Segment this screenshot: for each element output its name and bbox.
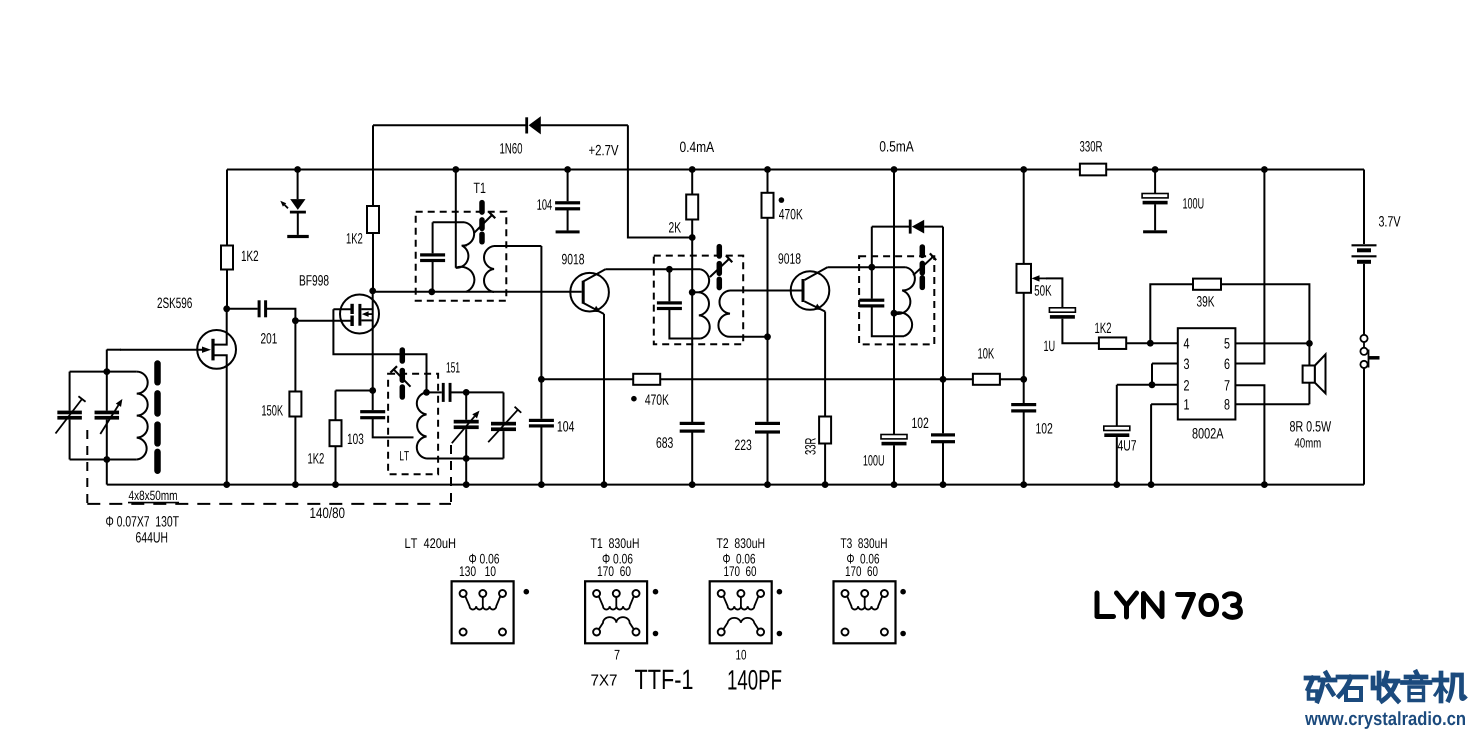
label 4U7 xyxy=(1118,440,1136,450)
node BF998 source xyxy=(369,387,376,394)
wire +2.7V branch xyxy=(628,125,692,237)
wire detector diode output xyxy=(924,226,943,228)
capacitor T1 internal xyxy=(420,253,445,262)
node 683 ground xyxy=(689,481,696,488)
wire battery to switch xyxy=(1363,264,1365,335)
pin 6 label xyxy=(1225,359,1230,370)
pin 2 label xyxy=(1184,380,1189,391)
label 644UH xyxy=(136,532,167,543)
node 33R ground xyxy=(822,481,829,488)
node pin5/39K/speaker xyxy=(1306,340,1313,347)
wire Q1 collector diagonal xyxy=(583,269,605,281)
wire to 1N60 cathode xyxy=(373,124,526,126)
node Q1 emitter ground xyxy=(601,481,608,488)
T1 primary cusp tick xyxy=(462,245,467,247)
label T3 830uH xyxy=(841,538,887,548)
capacitor 683 xyxy=(680,422,705,433)
BF998 substrate arrow xyxy=(362,311,373,317)
logo text LYN703 xyxy=(1097,593,1240,617)
label T1 xyxy=(474,183,486,193)
node 223 ground xyxy=(764,481,771,488)
capacitor 104 (tank area) xyxy=(529,419,554,428)
node T1 cap/primary bottom xyxy=(428,288,435,295)
label +2.7V xyxy=(589,145,618,156)
label 7 xyxy=(615,650,620,660)
inductor T3 coil xyxy=(894,267,915,336)
label 2SK596 xyxy=(158,298,192,309)
wire T2 cap top lead xyxy=(668,269,670,301)
label 1K2 amp xyxy=(1095,323,1111,334)
wire gate2 to LT oscillator coil xyxy=(333,309,426,392)
wire speaker bottom lead xyxy=(1308,383,1310,405)
footprint T1 xyxy=(585,581,647,643)
battery 3.7V xyxy=(1352,245,1377,261)
node T2 primary tap xyxy=(689,289,696,296)
label 4x8x50mm xyxy=(129,491,177,501)
BF998 drain stub xyxy=(361,308,373,310)
wire bus to cap 104 xyxy=(540,379,542,419)
node pin2/pin3 junction xyxy=(1149,381,1156,388)
wire BF998 drain-source vertical xyxy=(372,291,374,391)
label 10 xyxy=(736,650,746,660)
label 102 volume xyxy=(1036,423,1052,434)
dashed box LT oscillator coil xyxy=(388,374,438,475)
resistor 150K xyxy=(289,392,301,417)
label 683 xyxy=(657,437,673,448)
footprint T3 xyxy=(834,581,896,643)
resistor 330R xyxy=(1080,164,1106,176)
adjustable core T3 xyxy=(913,247,936,287)
node rail/104 xyxy=(564,166,571,173)
adjustable core T2 xyxy=(710,247,732,288)
dot T2 footprint a xyxy=(777,589,783,595)
label 100U top xyxy=(1183,198,1203,209)
label LT xyxy=(400,451,409,460)
wire gate down to antenna coil top xyxy=(106,350,108,372)
resistor 470K (AGC) xyxy=(633,374,660,385)
dot T1 footprint a xyxy=(653,589,659,595)
LED D1 (tuning indicator) xyxy=(290,199,306,213)
ferrite rod (4x8x50mm) xyxy=(154,364,161,471)
node T3 cap/collector xyxy=(868,264,875,271)
node pin1 ground xyxy=(1148,481,1155,488)
dot T1 footprint b xyxy=(653,631,659,637)
wire antenna tank bottom bar xyxy=(70,459,137,461)
label 3.7V xyxy=(1379,216,1401,227)
resistor 2K xyxy=(686,195,698,220)
node 104 ground xyxy=(538,481,545,488)
dot T2 footprint b xyxy=(777,631,783,637)
wire bias node to cap 223 xyxy=(767,337,769,422)
bullet 470K AGC xyxy=(631,396,637,402)
wire to CT2 top xyxy=(503,392,505,421)
label T2 830uH xyxy=(717,538,765,548)
inductor T1 primary xyxy=(456,222,475,291)
wire drain node to cap 201 xyxy=(227,308,258,310)
capacitor 223 xyxy=(755,422,780,434)
label 1K2 BF998 drain xyxy=(347,233,363,244)
wire to trimmer CT1 top xyxy=(69,372,71,411)
wire bus to cap 102b xyxy=(1023,379,1025,403)
label 104 top xyxy=(537,199,552,210)
node antenna tank bottom xyxy=(103,456,110,463)
label phi 0.06 T3 xyxy=(847,554,879,564)
wire speaker top lead xyxy=(1308,343,1310,365)
wire AGC bus middle segment xyxy=(660,378,973,380)
node LT coil top xyxy=(423,389,430,396)
wire 50K to bus xyxy=(1023,293,1025,380)
wire 100U to ground xyxy=(893,446,895,485)
node 50K/bus junction xyxy=(1020,376,1027,383)
Q1 emitter with arrow xyxy=(583,303,604,314)
dot T3 footprint a xyxy=(900,589,906,595)
wire Q1 collector to T2 xyxy=(605,268,700,270)
ground bar under 104 xyxy=(556,230,580,233)
wire 104 to ground bar xyxy=(567,210,569,230)
resistor 10K xyxy=(973,374,1000,385)
transistor Q1 9018 xyxy=(570,273,609,312)
label 1N60 xyxy=(500,143,522,154)
wire 39K to pin5 node xyxy=(1221,284,1309,343)
potentiometer 50K xyxy=(1017,264,1032,293)
wire drain to T1 and Q1 base xyxy=(373,291,582,293)
label 50K xyxy=(1035,285,1052,296)
underline 4x8x50mm xyxy=(128,502,179,504)
label TTF-1 xyxy=(635,670,692,689)
T2 tap stub xyxy=(692,291,699,293)
node LED-rail junction xyxy=(294,166,301,173)
capacitor CV2 tuning plates xyxy=(454,420,479,429)
node rail/2K xyxy=(689,166,696,173)
wire rail to 2K xyxy=(691,170,693,195)
wire pin 5 to speaker xyxy=(1235,342,1309,344)
label 1K2 source bias xyxy=(308,453,324,464)
wire pin 1 xyxy=(1151,403,1178,405)
wire ground rail xyxy=(107,484,1364,486)
2SK596 channel bar xyxy=(211,339,214,361)
label 39K xyxy=(1197,296,1215,307)
wire LED cathode xyxy=(297,214,299,235)
label 130 10 xyxy=(460,566,496,576)
wire T2 tap to cap 683 xyxy=(691,292,693,422)
dashed gang bottom line 140/80 xyxy=(87,503,451,505)
BF998 source stub xyxy=(361,319,373,321)
wire 470K to T2 secondary xyxy=(767,218,769,337)
trimmer arrow CT1 xyxy=(56,396,86,433)
resistor 470K (Q2 bias) xyxy=(762,193,774,218)
node antenna tank top xyxy=(103,368,110,375)
capacitor 1U xyxy=(1049,308,1075,319)
wire source to 1K2 bias xyxy=(336,390,373,392)
label 170 60 T1 xyxy=(598,566,631,576)
wire rail to 470K xyxy=(767,170,769,193)
LED emission arrow xyxy=(280,201,288,209)
transistor U BF998 (dual-gate MOSFET) xyxy=(340,295,379,334)
wire rail to LED anode xyxy=(297,170,299,200)
label 140/80 xyxy=(310,507,344,518)
dashed box T3 xyxy=(859,256,934,344)
dot LT footprint xyxy=(524,589,530,595)
label 140PF xyxy=(728,670,781,690)
ground bar under LED xyxy=(287,235,309,238)
wire 1K2 to pin 4 xyxy=(1126,342,1178,344)
node T2 secondary bias xyxy=(764,333,771,340)
wire to tuning cap CV1 top xyxy=(106,372,108,411)
bullet 470K xyxy=(779,197,785,203)
label 170 60 T2 xyxy=(724,566,756,576)
node 4U7 ground xyxy=(1113,481,1120,488)
label 2K xyxy=(669,222,681,233)
wire wiper to cap 1U xyxy=(1046,278,1062,307)
wire 223 to ground xyxy=(767,433,769,484)
capacitor T2 internal xyxy=(657,301,682,310)
wire diode to collector node xyxy=(871,227,873,268)
wire cap 104 to ground xyxy=(540,427,542,485)
node pin4/39K junction xyxy=(1147,340,1154,347)
wire rail to 50K xyxy=(1023,170,1025,264)
50K wiper arrow xyxy=(1032,275,1048,281)
transistor Q2 9018 xyxy=(791,271,830,310)
label 0.4mA xyxy=(680,142,714,153)
label BF998 xyxy=(300,275,329,286)
wire T2 cap bottom / primary bottom xyxy=(669,310,700,339)
wire diode line to 1K2 (BF998 drain) xyxy=(372,125,374,206)
node T2 cap/collector xyxy=(666,266,673,273)
wire detector output to bus xyxy=(942,227,944,380)
node BF998 drain xyxy=(369,288,376,295)
wire 2K to T2 tap xyxy=(691,220,693,293)
inductor antenna coil L1 (4 turns) xyxy=(137,372,148,460)
wire pin4 up to 39K xyxy=(1150,284,1193,343)
label 7X7 xyxy=(591,675,616,686)
label 0.5mA xyxy=(880,141,914,152)
capacitor 102 (detector) xyxy=(931,433,955,443)
label 8002A xyxy=(1193,428,1224,439)
wire 1K2 bias to ground xyxy=(335,446,337,484)
wire collector to detector diode xyxy=(872,226,910,228)
resistor 1K2 (BF998 drain load) xyxy=(367,206,379,233)
switch S1 (power) xyxy=(1360,335,1379,368)
wire antenna tank to ground rail xyxy=(106,460,108,485)
node 1K2 ground xyxy=(332,481,339,488)
label 1K2 drain resistor xyxy=(242,251,258,262)
label 10K xyxy=(978,348,994,359)
wire AGC bus left segment xyxy=(541,378,633,380)
label 223 xyxy=(735,440,751,451)
node pin7 ground xyxy=(1261,481,1268,488)
wire pin 3 xyxy=(1152,363,1178,365)
wire T1 cap bottom lead xyxy=(432,262,434,292)
node tank bottom junction xyxy=(463,455,470,462)
label 1U xyxy=(1044,341,1054,351)
label 151 xyxy=(447,362,460,372)
wire rail to T1 primary tap xyxy=(455,170,457,268)
capacitor 103 xyxy=(360,410,385,419)
tuning arrow CV1 xyxy=(100,399,122,434)
wire trimmer CT1 bottom xyxy=(69,420,71,460)
label 9018 Q2 xyxy=(779,253,801,264)
wire source to cap 103 xyxy=(372,391,374,411)
wire pin 8 to speaker xyxy=(1235,403,1309,405)
adjustable core T1 xyxy=(474,203,495,242)
watermark url xyxy=(1305,711,1465,729)
wire bus to cap 102 xyxy=(942,379,944,433)
inductor LT oscillator coil xyxy=(417,392,427,458)
node rail/T1 tap xyxy=(452,166,459,173)
wire BF998 gate 2 lead xyxy=(333,308,350,310)
adjustable core LT xyxy=(390,350,410,397)
wire CT2 bottom xyxy=(503,431,505,458)
capacitor CV1 tuning plates xyxy=(95,411,120,420)
capacitor CT2 trimmer plates xyxy=(491,422,516,431)
wire T3 cap bottom / coil bottom xyxy=(872,307,904,336)
capacitor 100U (supply) xyxy=(1142,194,1168,205)
node 150K ground xyxy=(292,481,299,488)
pin 8 label xyxy=(1225,399,1230,410)
wire pin 2 xyxy=(1117,384,1178,386)
wire 4U7 to ground xyxy=(1116,437,1118,485)
IC U 8002A xyxy=(1178,328,1236,419)
dashed box T1 xyxy=(416,212,507,301)
dot T3 footprint b xyxy=(900,631,906,637)
node rail/50K xyxy=(1020,166,1027,173)
trimmer arrow CT2 xyxy=(488,407,521,443)
wire T3 tap to 100U xyxy=(893,313,895,434)
capacitor 151 xyxy=(442,383,452,402)
node +2.7V / 2K junction xyxy=(689,234,696,241)
node drain/cap201 junction xyxy=(223,305,230,312)
label 150K xyxy=(262,405,283,416)
wire 1K2 bias top xyxy=(335,391,337,421)
wire 1K2 to BF998 drain node xyxy=(372,233,374,291)
capacitor 102 (volume) xyxy=(1011,403,1036,413)
inductor T2 primary xyxy=(699,269,710,338)
label phi 0.06 T1 xyxy=(603,554,633,564)
wire cap 103 to LT coil tap xyxy=(373,419,414,438)
wire 102 to ground xyxy=(942,443,944,485)
resistor 33R xyxy=(819,417,831,444)
footprint LT coil former xyxy=(452,581,514,643)
wire rail to R 1K2 (RF drain) xyxy=(226,170,228,246)
wire T3 cap top lead xyxy=(871,267,873,298)
wire 1N60 anode to +2.7V corner xyxy=(541,124,628,126)
capacitor 4U7 xyxy=(1104,426,1130,437)
label 103 xyxy=(348,434,364,445)
label 104 tank xyxy=(558,421,574,432)
wire tuning cap CV1 bottom xyxy=(106,420,108,460)
wire pin3 to pin2 net xyxy=(1151,364,1153,385)
wire rail to 100U top xyxy=(1154,170,1156,194)
wire bus to volume pot xyxy=(1000,378,1024,380)
label LT 420uH xyxy=(405,538,455,548)
wire LT top to cap 151 xyxy=(427,391,442,393)
diode detector (1N60) xyxy=(909,220,924,234)
label 170 60 T3 xyxy=(846,566,878,576)
wire tank bottom bar xyxy=(427,458,504,460)
wire pin 7 to ground xyxy=(1235,385,1264,484)
wire T2 secondary to Q2 base xyxy=(730,290,802,292)
wire 683 to ground xyxy=(691,432,693,484)
pin 7 label xyxy=(1225,380,1230,390)
resistor 1K2 (source bias) xyxy=(330,420,342,446)
tuning arrow CV2 xyxy=(452,411,480,444)
inductor T2 secondary xyxy=(718,291,730,337)
wire 100U to ground bar xyxy=(1154,204,1156,230)
node T3 tap xyxy=(891,310,898,317)
wire to BF998 gate 1 xyxy=(295,320,350,322)
dashed gang line (right, to LT tuning cap) xyxy=(450,445,452,504)
label 330R xyxy=(1080,141,1102,152)
label 470K AGC xyxy=(645,394,669,405)
node source-ground junction xyxy=(223,481,230,488)
wire gate node to 150K xyxy=(294,321,296,392)
speaker 8R 0.5W xyxy=(1303,354,1326,393)
wire T1 cap to primary top xyxy=(433,221,465,223)
label 102 detector xyxy=(912,418,928,429)
dashed gang line (left) xyxy=(86,430,88,504)
label 100U bottom xyxy=(864,455,884,466)
node rail/100U top xyxy=(1152,166,1159,173)
capacitor CT1 trimmer plates xyxy=(57,411,82,420)
wire cap 151 to tuning caps xyxy=(451,391,503,393)
wire 33R to ground xyxy=(824,444,826,485)
wire pin2 to 4U7 xyxy=(1116,385,1118,426)
wire +V rail (right section) xyxy=(1106,169,1364,171)
capacitor T3 internal xyxy=(859,299,884,308)
wire gate to tank top xyxy=(107,349,121,351)
node 102 ground xyxy=(940,481,947,488)
label phi 0.06 T2 xyxy=(723,554,755,564)
label 33R (rotated) xyxy=(805,438,816,455)
transistor Q 2SK596 (JFET) xyxy=(197,330,236,369)
wire T1 cap top lead xyxy=(432,222,434,253)
label 8R 0.5W xyxy=(1290,421,1331,432)
wire CV2 bottom xyxy=(465,429,467,458)
label phi 0.06 LT xyxy=(469,554,499,564)
wire 1U to 1K2 xyxy=(1062,319,1099,344)
dashed box T2 xyxy=(654,256,743,345)
wire 102b to ground xyxy=(1023,412,1025,485)
ground bar under 100U xyxy=(1143,230,1167,233)
node gate1/150K junction xyxy=(292,317,299,324)
wire gate lead with arrow (2SK596) xyxy=(120,347,211,353)
wire to CV2 top xyxy=(465,392,467,419)
node tank top junction xyxy=(463,389,470,396)
Q2 emitter with arrow xyxy=(805,301,826,311)
watermark Chinese logo (crystal radio) xyxy=(1306,672,1465,701)
wire switch to ground rail xyxy=(1363,368,1365,485)
wire drain lead of 2SK596 xyxy=(213,309,227,345)
wire pin 6 to rail xyxy=(1235,170,1264,364)
wire rail to battery xyxy=(1363,170,1365,245)
capacitor 100U (detector filter) xyxy=(881,435,907,446)
wire Q1 emitter to ground xyxy=(603,314,605,485)
node tank ground xyxy=(463,481,470,488)
node rail/T3 feed xyxy=(891,166,898,173)
wire R 1K2 to drain node xyxy=(226,270,228,309)
wire Q2 collector to T3 xyxy=(827,266,905,268)
label 9018 Q1 xyxy=(562,254,584,265)
capacitor 201 xyxy=(258,300,268,317)
pin 1 label xyxy=(1184,399,1189,409)
resistor 39K xyxy=(1193,279,1221,290)
wire T2 secondary bottom xyxy=(730,336,768,338)
pin 5 label xyxy=(1224,338,1229,348)
diode D 1N60 xyxy=(525,116,541,134)
resistor 1K2 (2SK596 drain load) xyxy=(221,246,233,270)
wire Q2 collector diagonal xyxy=(805,267,828,280)
capacitor 104 (supply bypass) xyxy=(555,201,580,210)
